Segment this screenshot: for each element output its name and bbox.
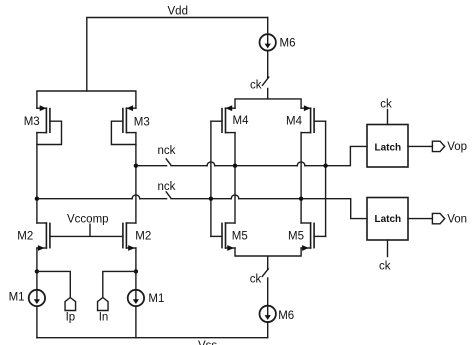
svg-text:M1: M1 [9, 291, 25, 303]
wire M4 source rail [235, 99, 301, 108]
transistor M5 (left NMOS) [211, 223, 235, 251]
node Vop label [447, 141, 467, 153]
wire Ip tap [37, 271, 70, 297]
junction dot M2R source / In [134, 269, 138, 273]
node Ip label [66, 312, 76, 324]
port In input terminal [98, 298, 109, 311]
junction dot nck2-M4L gate [209, 197, 213, 201]
node ck middle label [250, 274, 262, 286]
svg-text:nck: nck [158, 181, 176, 193]
switch nck 1 [166, 159, 171, 165]
wire nck line 1 [136, 146, 367, 165]
node M2 left label [17, 231, 33, 243]
svg-text:M4: M4 [286, 116, 303, 128]
transistor M4 (right PMOS) [301, 105, 326, 132]
node M5 right label [288, 230, 304, 242]
svg-text:Von: Von [447, 213, 467, 225]
transistor M3 (left, diode-connected PMOS) [37, 105, 62, 144]
wire Vop output [408, 145, 432, 147]
wire left branch drain (M3L to M2L) [36, 133, 38, 223]
svg-text:M5: M5 [232, 230, 248, 242]
svg-text:Vop: Vop [447, 141, 467, 153]
node In label [99, 312, 109, 324]
wire Vdd rail [87, 18, 268, 92]
node Vdd label [168, 5, 188, 17]
svg-text:M6: M6 [278, 310, 294, 322]
wire M5 common source [235, 248, 301, 269]
current source M6 (top) [260, 18, 276, 78]
svg-text:Vccomp: Vccomp [67, 214, 109, 226]
node Vccomp label [67, 214, 109, 226]
wire Von output [408, 218, 432, 220]
svg-text:Vss: Vss [198, 340, 217, 345]
node M4 left label [233, 115, 250, 127]
node M6 bottom label [278, 310, 294, 322]
node nck 1 label [158, 145, 176, 157]
wire In tap [103, 271, 136, 297]
node M4 right label [286, 116, 303, 128]
transistor M3 (right, diode-connected PMOS) [111, 105, 135, 144]
node Latch bottom text [375, 214, 402, 225]
port Von output terminal [432, 213, 444, 223]
svg-text:ck: ck [380, 99, 392, 111]
junction dot nck1-M4L drain [233, 164, 237, 168]
switch nck 2 [166, 192, 171, 198]
node Latch top text [375, 142, 402, 153]
svg-text:nck: nck [158, 145, 176, 157]
latch U1 (top) [367, 110, 408, 168]
wire M2L source to tail [36, 248, 38, 290]
svg-text:Vdd: Vdd [168, 5, 188, 17]
node M2 right label [135, 231, 151, 243]
wire M2R source to tail [135, 248, 137, 290]
svg-text:M6: M6 [280, 37, 296, 49]
node M1 left label [9, 291, 25, 303]
wire Vss rail [37, 337, 268, 339]
current source M1 (right) [128, 290, 144, 338]
wire right branch drain (M3R to M2R) [132, 133, 140, 223]
svg-text:M3: M3 [134, 116, 150, 128]
node M6 top label [280, 37, 296, 49]
port Ip input terminal [65, 298, 76, 311]
svg-text:M3: M3 [24, 116, 40, 128]
svg-text:M1: M1 [148, 293, 164, 305]
svg-text:Ip: Ip [66, 312, 76, 324]
svg-text:Latch: Latch [375, 142, 402, 153]
node ck top label [250, 79, 262, 91]
node M3 left label [24, 116, 40, 128]
transistor M2 (right NMOS input) [123, 223, 136, 251]
svg-text:M2: M2 [17, 231, 33, 243]
node ck top-latch label [380, 99, 392, 111]
latch U2 (bottom) [367, 198, 408, 257]
current source M1 (left) [29, 290, 45, 338]
svg-text:Latch: Latch [375, 214, 402, 225]
svg-text:M2: M2 [135, 231, 151, 243]
wire M4L gate to M5L gate (cross-couple left) [207, 121, 215, 236]
node Von label [447, 213, 467, 225]
junction dot nck2-M4R drain [299, 197, 303, 201]
switch ck (middle) [262, 269, 268, 306]
node M3 right label [134, 116, 150, 128]
svg-text:ck: ck [250, 274, 262, 286]
wire M3 pair source rail [37, 91, 136, 108]
wire M4R drain to M5R drain [297, 133, 305, 223]
node Vss label [198, 340, 217, 345]
switch ck (top) [263, 77, 269, 99]
transistor M4 (left PMOS) [211, 105, 235, 132]
svg-text:ck: ck [379, 261, 391, 273]
transistor M2 (left NMOS input) [37, 223, 50, 251]
wire M4L drain to M5L drain [231, 133, 239, 223]
wire M2 gate line Vccomp [50, 224, 123, 236]
wire M4R gate to M5R gate (cross-couple right) [325, 121, 327, 236]
node M5 left label [232, 230, 248, 242]
junction dot nck1-M4R gate [323, 164, 327, 168]
node M1 right label [148, 293, 164, 305]
svg-text:M4: M4 [233, 115, 250, 127]
wire nck line 2 [37, 199, 367, 219]
junction dot M2L source / Ip [35, 269, 39, 273]
junction dot nck2-M3L [35, 197, 39, 201]
node nck 2 label [158, 181, 176, 193]
node ck bottom-latch label [379, 261, 391, 273]
current source M6 (bottom) [260, 306, 276, 338]
svg-text:M5: M5 [288, 230, 304, 242]
junction dot nck1-M3R [134, 164, 138, 168]
svg-text:In: In [99, 312, 109, 324]
transistor M5 (right NMOS) [301, 223, 326, 251]
port Vop output terminal [432, 141, 444, 151]
svg-text:ck: ck [250, 79, 262, 91]
